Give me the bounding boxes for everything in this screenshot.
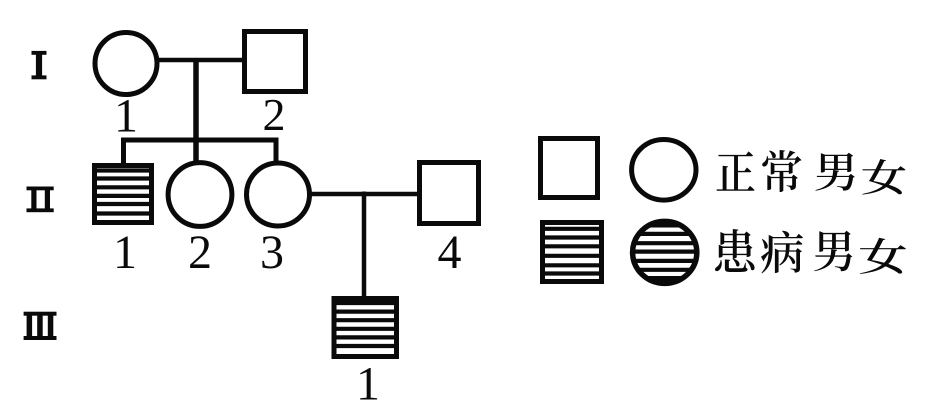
sibship bar — [121, 138, 279, 143]
marriage line II-3 to II-4 — [310, 192, 419, 197]
legend affected male square (hatched) — [543, 223, 602, 282]
legend normal male square — [541, 139, 598, 198]
legend text char 正 — [716, 151, 754, 190]
individual II-2 circle (normal female) — [168, 163, 232, 227]
individual II-3 circle (normal female) — [247, 163, 310, 226]
marriage line I-1 to I-2 — [157, 58, 244, 63]
legend text char 女 (row 1) — [862, 159, 905, 195]
svg-text:3: 3 — [260, 226, 284, 279]
svg-text:1: 1 — [114, 90, 138, 143]
generation label II — [27, 187, 54, 213]
legend text char 男 (row 1) — [815, 153, 854, 191]
descent line from II-3/II-4 couple to III-1 — [362, 192, 367, 300]
svg-text:2: 2 — [263, 89, 286, 140]
generation label I — [32, 51, 47, 79]
individual II-1 hatched square (affected male) — [95, 166, 152, 223]
drop line to II-3 — [274, 138, 279, 165]
descent line from I couple down to II-2 — [193, 60, 199, 163]
svg-text:4: 4 — [438, 226, 462, 279]
svg-text:2: 2 — [188, 226, 212, 279]
individual III-1 hatched square (affected male) — [334, 299, 397, 357]
individual I-2 square (normal male) — [245, 32, 306, 92]
drop line to II-1 — [121, 138, 126, 167]
legend text char 患 — [715, 229, 755, 272]
individual II-4 square (normal male) — [420, 163, 479, 224]
legend text char 女 (row 2) — [860, 238, 906, 274]
individual I-1 circle (normal female) — [95, 33, 157, 95]
legend text char 病 — [761, 231, 803, 274]
legend affected female circle (hatched) — [628, 215, 702, 290]
legend text char 常 — [762, 150, 801, 192]
legend text char 男 (row 2) — [814, 231, 852, 272]
legend normal female circle — [632, 140, 696, 201]
svg-text:1: 1 — [356, 358, 380, 411]
generation label III — [24, 312, 57, 340]
svg-text:1: 1 — [113, 226, 137, 279]
